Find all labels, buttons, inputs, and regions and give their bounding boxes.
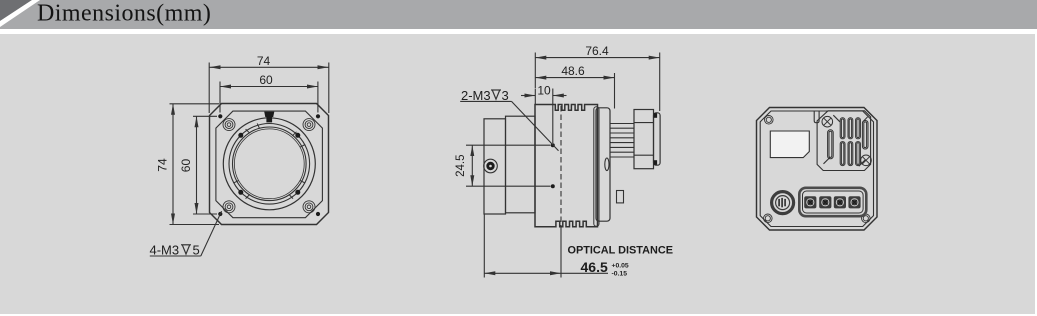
label underline	[460, 100, 511, 102]
optical distance dim line	[484, 272, 561, 274]
back body octagon	[757, 108, 878, 231]
power connector inner circle	[776, 196, 790, 210]
svg-text:5: 5	[193, 243, 200, 258]
heatsink screw bottom-right	[861, 155, 872, 166]
heatsink slots column 2	[848, 118, 853, 166]
lens tube	[506, 116, 536, 213]
leader to mounting hole	[201, 211, 222, 256]
plate screw top-right	[303, 119, 315, 131]
plate screw top-left	[223, 119, 235, 131]
dim 60 left extension lines	[193, 115, 217, 117]
lens flange ring	[484, 119, 506, 214]
svg-text:60: 60	[259, 73, 273, 87]
power connector pins	[778, 198, 786, 207]
SIDE VIEW	[455, 44, 673, 277]
svg-text:10: 10	[537, 83, 551, 97]
mounting hole M3 bottom-right	[316, 212, 320, 216]
connector panel	[799, 188, 866, 216]
lens ring screw NW	[238, 133, 243, 138]
lens ring screw SW	[238, 190, 243, 195]
dim 76.4 line	[535, 57, 659, 59]
dim 74 top extension lines	[208, 63, 210, 114]
lock screw outline	[484, 159, 498, 173]
underline of 46.5	[561, 272, 608, 274]
back inner outline	[760, 111, 873, 227]
svg-text:60: 60	[179, 159, 193, 173]
camera body front octagon	[210, 104, 329, 225]
svg-text:3: 3	[502, 88, 509, 103]
svg-text:Dimensions(mm): Dimensions(mm)	[37, 1, 211, 27]
sensor plane dashed line	[560, 106, 562, 227]
front plate octagon	[216, 111, 323, 218]
heatsink chamfer marks	[833, 115, 840, 122]
svg-text:48.6: 48.6	[561, 64, 585, 78]
svg-text:74: 74	[257, 54, 271, 68]
leader to side hole	[512, 101, 559, 150]
FRONT VIEW	[150, 54, 329, 258]
dim 76.4 extension lines	[534, 53, 536, 89]
heatsink right slot	[862, 117, 868, 149]
lens ring screw NE	[295, 133, 300, 138]
svg-text:+0.05: +0.05	[612, 262, 629, 269]
dim 48.6 extension line	[614, 73, 616, 109]
bottom tab connector	[617, 191, 624, 203]
socket 2	[819, 196, 831, 208]
dim 60 left line	[196, 116, 198, 214]
heatsink left slot	[828, 130, 834, 159]
dim 74 left line	[172, 104, 174, 225]
thread tick marks	[233, 123, 305, 198]
optical distance extension line	[483, 215, 485, 278]
header corner dark triangle	[0, 0, 32, 21]
heatsink slots column 3	[856, 118, 861, 166]
dim 10 extension lines	[534, 89, 536, 105]
small slot tab	[814, 111, 819, 122]
dim 24.5 extension lines	[466, 144, 551, 146]
mounting hole M3 top-left	[218, 114, 222, 118]
lens ring circle	[229, 124, 310, 205]
depth symbol	[181, 245, 191, 254]
socket 4	[848, 196, 860, 208]
BACK VIEW	[757, 108, 878, 231]
socket 1	[804, 196, 816, 208]
camera body with heatsink notches	[535, 105, 598, 227]
connector tip	[654, 113, 661, 165]
header white diagonal stripe	[0, 0, 40, 27]
lens mount outer circle	[223, 118, 315, 210]
connector ribs	[611, 124, 635, 158]
label sticker	[770, 131, 809, 158]
corner screw bottom-left	[764, 214, 773, 223]
svg-text:-0.15: -0.15	[612, 270, 628, 277]
socket 3	[834, 196, 846, 208]
lens bore circle	[232, 127, 306, 201]
svg-text:76.4: 76.4	[585, 44, 609, 58]
plate screw bottom-right	[303, 201, 315, 213]
heatsink panel outline	[817, 111, 871, 171]
dim 60 top line	[220, 86, 318, 88]
dim 60 top extension lines	[219, 82, 221, 113]
heatsink slots column 1	[840, 118, 845, 166]
dim 10 line with outside arrows	[521, 95, 535, 97]
svg-text:2-M3: 2-M3	[461, 88, 491, 103]
lens thread circle	[234, 129, 304, 199]
lens top lock screw	[264, 112, 274, 117]
corner screw top-left	[765, 116, 774, 125]
depth symbol	[491, 90, 501, 99]
svg-text:46.5: 46.5	[581, 259, 608, 275]
header bar	[0, 0, 1037, 29]
mounting hole M3 top-right	[316, 114, 320, 118]
rear gasket plate	[594, 107, 599, 226]
label underline	[150, 255, 201, 257]
mounting hole M3 bottom-left	[218, 212, 222, 216]
corner screw bottom-right	[862, 214, 871, 223]
dim 74 top line	[210, 66, 329, 68]
LED slot oval	[605, 158, 609, 171]
connector block	[634, 110, 654, 169]
power connector outer ring	[772, 192, 794, 214]
lock screw center	[489, 165, 492, 168]
svg-text:74: 74	[156, 158, 170, 172]
svg-text:OPTICAL DISTANCE: OPTICAL DISTANCE	[568, 245, 674, 257]
heatsink screw top-left	[822, 116, 833, 127]
plate screw bottom-left	[223, 201, 235, 213]
side M3 hole upper	[551, 143, 555, 147]
lens ring screw SE	[295, 190, 300, 195]
svg-text:4-M3: 4-M3	[150, 243, 180, 258]
side M3 hole lower	[551, 184, 555, 188]
dim 24.5 line	[471, 145, 473, 186]
lock screw head	[486, 162, 494, 170]
rear cap	[596, 108, 610, 221]
dim 48.6 line	[535, 77, 614, 79]
dim 74 left extension lines	[170, 103, 220, 105]
svg-text:24.5: 24.5	[455, 155, 467, 177]
